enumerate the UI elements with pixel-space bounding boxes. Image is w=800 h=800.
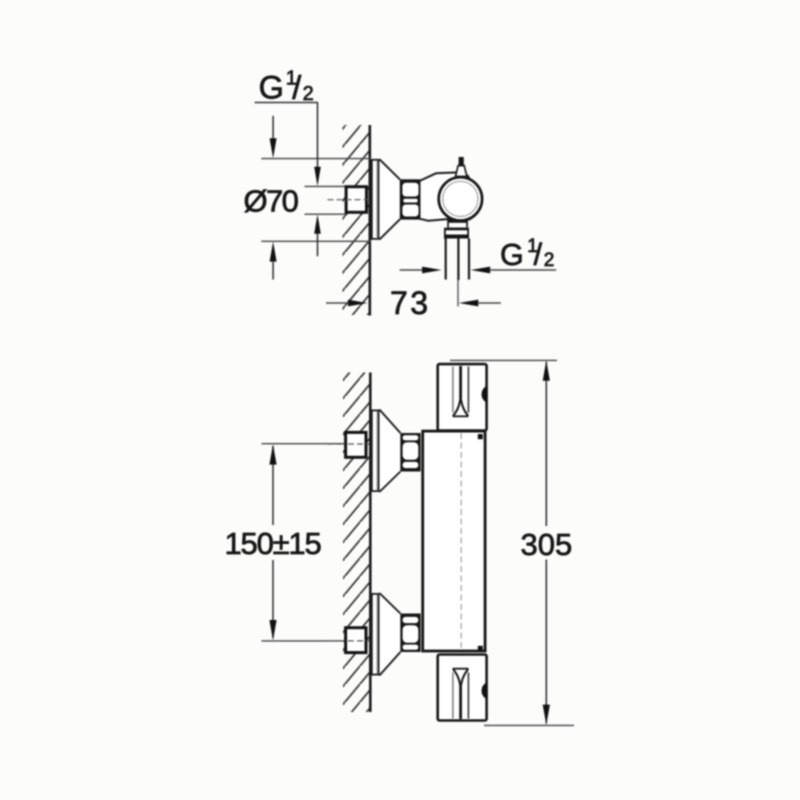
knob cap (black): [459, 157, 464, 166]
extension+center line lower square: [261, 640, 345, 642]
temperature handle circle: [439, 177, 482, 220]
extension line flange top (O70 dim): [261, 158, 371, 160]
305 extension line bottom: [484, 724, 574, 726]
wall face line (top view): [368, 125, 371, 316]
nut (3 facets): [400, 433, 420, 472]
shower pipe (top view): [445, 239, 447, 280]
svg-text:2: 2: [544, 250, 555, 271]
nut (3 facets): [400, 614, 420, 653]
arrow down: [269, 620, 276, 640]
arrow left to pipe center: [459, 300, 479, 307]
label G 1/2 (right): [500, 236, 554, 272]
supply square (top view): [346, 187, 366, 213]
tail below up-arrow: [317, 233, 319, 256]
lower S-union group (front, mirrored): [372, 593, 421, 676]
label G 1/2 (top left): [259, 68, 314, 106]
cone: [379, 593, 400, 676]
arrow right to pipe left edge: [422, 267, 442, 274]
arrow down to flange top line: [270, 138, 277, 158]
upper S-union group (front): [372, 410, 421, 493]
underline of G 1/2 label: [255, 102, 318, 104]
body dashed centerline: [460, 433, 462, 650]
inner circle: [443, 181, 478, 216]
escutcheon flange (top view): [372, 160, 379, 239]
flange: [372, 594, 379, 675]
wall hatching (bottom view): [343, 373, 369, 713]
union nut (top view): [400, 179, 421, 219]
wall hatching (top view): [343, 125, 369, 315]
knob stem on top of circle: [456, 166, 467, 177]
lower supply square (front): [346, 628, 366, 653]
upper supply square (front): [346, 432, 366, 457]
svg-text:73: 73: [390, 285, 431, 321]
dashed centerline through square: [328, 199, 370, 201]
arrow up to square bottom: [314, 214, 321, 233]
leader line G1/2 down: [317, 103, 319, 171]
G 1/2 dimension (shower outlet): [400, 269, 423, 271]
bottom cap / handle (front, mirrored): [438, 646, 487, 721]
arrow up: [269, 444, 276, 464]
arrow up to flange bottom line: [270, 242, 277, 262]
svg-text:150±15: 150±15: [225, 526, 321, 561]
arrow down to square top: [314, 167, 321, 186]
valve body (top view): [420, 172, 471, 220]
extension line square bottom (G1/2 dim): [305, 213, 347, 215]
svg-text:/: /: [534, 238, 543, 272]
305 extension line top (with cap dome): [450, 359, 557, 361]
grip slot: [452, 367, 454, 413]
outlet collar tier2: [444, 228, 469, 239]
extension+center line upper square: [261, 443, 345, 445]
extension line square top (G1/2 dim): [305, 185, 347, 187]
cone: [379, 410, 400, 493]
svg-text:Ø70: Ø70: [244, 184, 299, 219]
arrow right to wall: [348, 300, 368, 307]
arrow up: [543, 360, 550, 380]
73 dimension line: [326, 302, 349, 304]
svg-text:/: /: [292, 70, 302, 106]
flange shading line: [376, 161, 378, 239]
arrow down: [543, 705, 550, 725]
svg-text:G: G: [500, 238, 524, 272]
mixer body (front): [423, 431, 485, 651]
centerline dashes over squares: [348, 443, 370, 445]
flange: [372, 410, 379, 491]
150±15 dimension: [272, 446, 274, 525]
top cap / handle (front): [438, 364, 487, 439]
pipe centerline extension: [457, 280, 459, 307]
O70 dimension arrows: [272, 116, 274, 140]
wall face line (bottom view): [369, 373, 372, 713]
svg-text:305: 305: [521, 527, 573, 562]
extension line flange bottom (O70 dim): [261, 240, 371, 242]
arrow left to pipe right edge: [471, 267, 491, 274]
svg-text:G: G: [259, 70, 284, 106]
outlet collar tier1: [447, 219, 468, 228]
button bump: [482, 386, 487, 403]
corner mark: [478, 434, 483, 439]
305 dimension line: [545, 362, 547, 526]
escutcheon cone (top view): [379, 159, 400, 239]
